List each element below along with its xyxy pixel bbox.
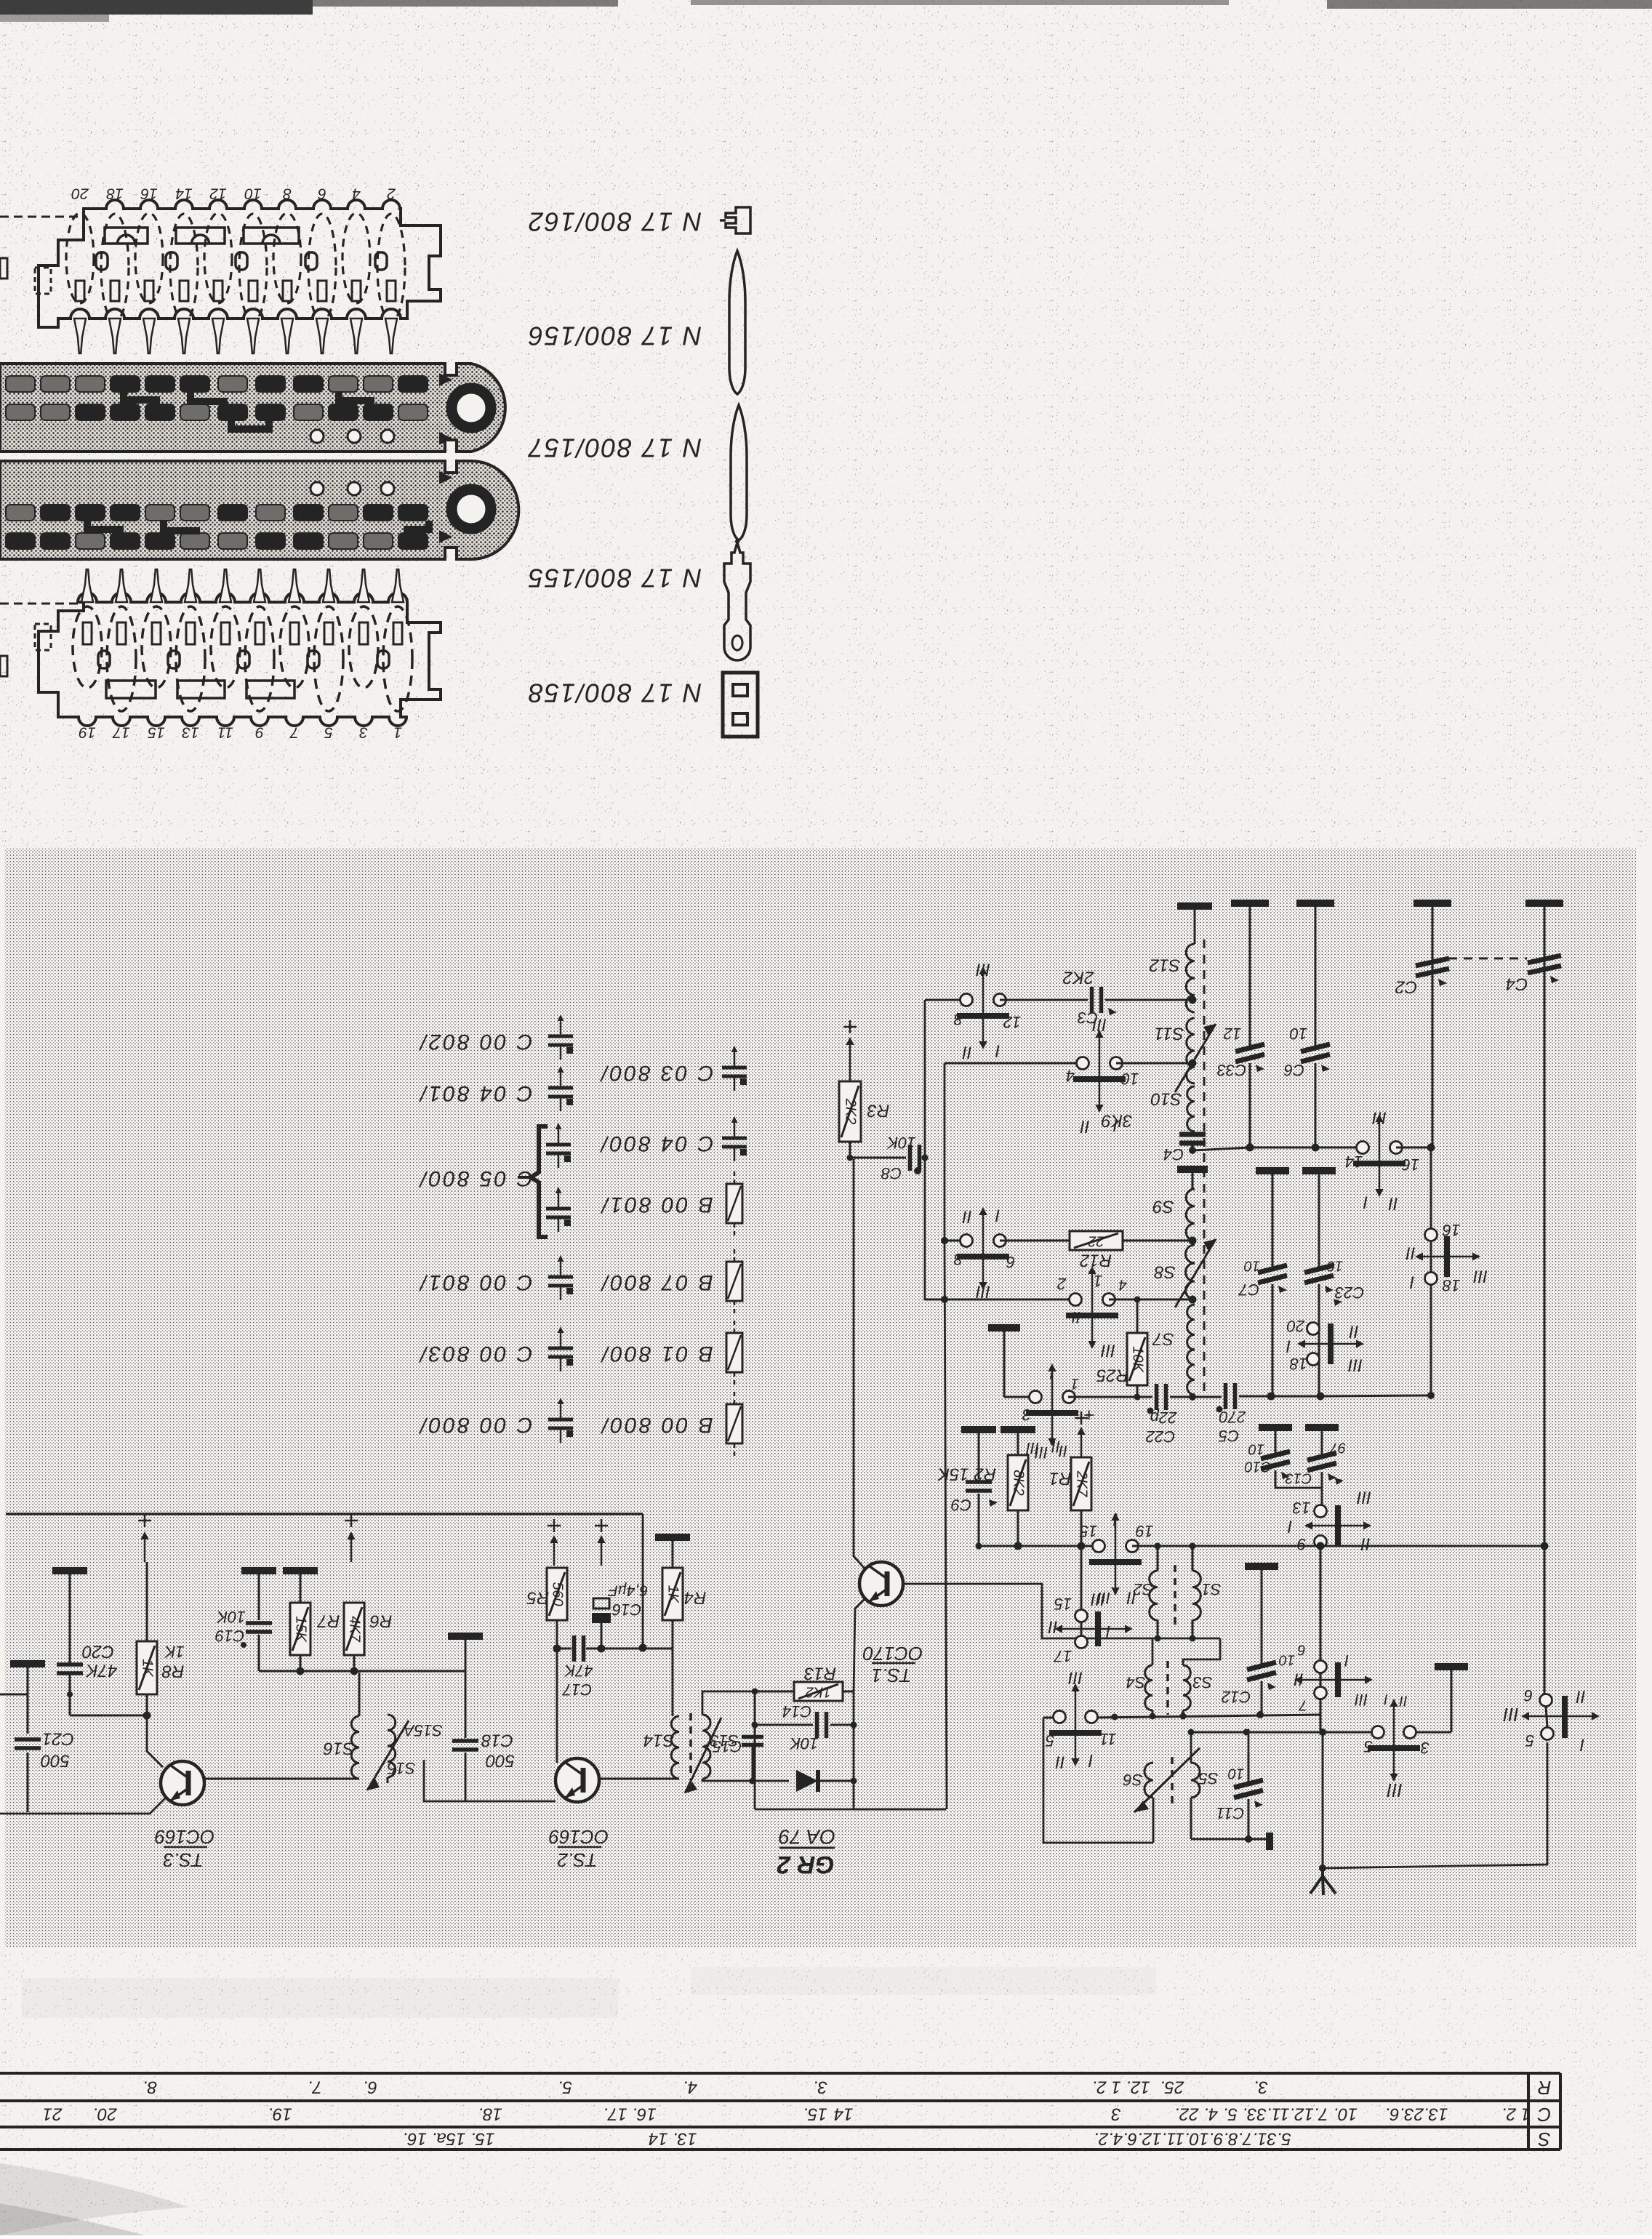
svg-text:C16: C16 <box>612 1601 641 1619</box>
coil S10 <box>1187 1086 1195 1131</box>
svg-text:15.: 15. <box>803 2104 827 2124</box>
svg-text:S8: S8 <box>1154 1262 1176 1282</box>
wire right rect side <box>1248 1729 1250 1753</box>
wire S13 bottom to diode <box>702 1779 789 1781</box>
svg-text:18.: 18. <box>478 2104 502 2124</box>
strip2 index arrows <box>439 373 452 386</box>
symbol contact fork N17800/162 <box>726 207 750 233</box>
capacitor C12 branch <box>1245 1563 1278 1570</box>
wire C10 C13 link <box>1275 1486 1322 1488</box>
svg-text:15: 15 <box>148 724 165 740</box>
svg-text:II: II <box>1055 1753 1065 1772</box>
resistor R13 <box>755 1691 794 1693</box>
list capacitor symbol C 04 800/ <box>734 1123 736 1137</box>
strip2 copper traces <box>124 392 156 409</box>
svg-text:II: II <box>1406 1243 1416 1263</box>
coil S13 adjustable <box>702 1715 710 1779</box>
coil S3 <box>1183 1665 1190 1710</box>
scan streak above table <box>22 1978 618 2018</box>
svg-text:15K: 15K <box>293 1616 309 1643</box>
wire bus corner to C16 junction <box>642 1514 644 1648</box>
svg-text:III: III <box>1068 1668 1083 1688</box>
capacitor C23 branch <box>1302 1167 1336 1174</box>
svg-text:C22: C22 <box>1146 1427 1175 1446</box>
svg-text:C15: C15 <box>712 1737 742 1755</box>
capacitor C8 <box>850 1157 906 1159</box>
list resistor symbol B 01 800/ <box>734 1321 736 1333</box>
symbol long contact pin N17800/156 <box>729 251 745 394</box>
svg-text:C12: C12 <box>1222 1688 1251 1706</box>
svg-text:R13: R13 <box>803 1664 836 1683</box>
resistor R7 <box>283 1567 318 1574</box>
svg-text:13: 13 <box>182 724 199 740</box>
svg-text:C18: C18 <box>481 1731 513 1750</box>
capacitor C14 <box>755 1724 813 1726</box>
svg-text:10: 10 <box>1279 1652 1295 1668</box>
svg-text:11: 11 <box>217 724 233 740</box>
svg-text:TS.3: TS.3 <box>163 1849 203 1871</box>
list resistor symbol B 07 800/ <box>734 1249 736 1262</box>
svg-text:8: 8 <box>283 185 292 201</box>
svg-text:10: 10 <box>1289 1025 1307 1043</box>
wafer4 dashed rotor contacts <box>73 606 102 688</box>
wafer4 contact rivets <box>98 651 110 668</box>
svg-text:II: II <box>1294 1670 1304 1689</box>
svg-text:11: 11 <box>1100 1730 1117 1748</box>
resistor R2 <box>1001 1426 1035 1433</box>
svg-text:22p: 22p <box>1150 1409 1178 1427</box>
resistor R6 <box>344 1603 364 1655</box>
svg-text:8.: 8. <box>143 2078 157 2097</box>
capacitor C11 <box>1234 1780 1263 1787</box>
svg-text:TS.1: TS.1 <box>872 1665 912 1686</box>
svg-text:8: 8 <box>953 1250 963 1268</box>
svg-text:C4: C4 <box>1506 974 1528 994</box>
svg-text:1K2: 1K2 <box>806 1684 832 1700</box>
S6 adjust arrow <box>1134 1748 1200 1812</box>
svg-text:47K: 47K <box>564 1662 593 1680</box>
transistor TS1 <box>859 1562 903 1606</box>
scan smudge bottom left <box>0 2163 189 2235</box>
wire TS2 base from C17 node <box>556 1649 558 1763</box>
svg-text:18: 18 <box>1289 1355 1307 1373</box>
capacitor C15 <box>742 1735 763 1739</box>
wire C20 to R8 <box>70 1715 147 1717</box>
svg-text:B 00 801/: B 00 801/ <box>600 1193 713 1217</box>
printed circuit strip N17800/155 body <box>0 461 518 559</box>
svg-text:17: 17 <box>1054 1647 1072 1665</box>
capacitor C13 branch <box>1305 1424 1339 1431</box>
svg-text:C2: C2 <box>1395 977 1418 997</box>
svg-text:8: 8 <box>953 1010 963 1028</box>
svg-text:C7: C7 <box>1238 1281 1259 1299</box>
svg-text:II: II <box>1399 1693 1408 1709</box>
svg-text:12: 12 <box>209 185 227 201</box>
top plate a <box>1231 900 1269 907</box>
svg-text:16: 16 <box>1442 1221 1460 1239</box>
wafer1 contact rivets <box>96 252 108 270</box>
svg-text:C 00 803/: C 00 803/ <box>418 1342 532 1366</box>
svg-text:12: 12 <box>1003 1013 1021 1031</box>
svg-text:OC169: OC169 <box>549 1826 609 1848</box>
switch S 20/18 <box>1307 1323 1320 1335</box>
wire C9 bottom bus <box>979 1545 1018 1547</box>
capacitor C6 branch <box>1315 906 1317 1046</box>
svg-text:14: 14 <box>175 185 192 201</box>
strip2 holes <box>310 430 324 443</box>
wafer1 terminal pins <box>74 319 86 353</box>
svg-text:S7: S7 <box>1152 1329 1174 1349</box>
trimmer C1 <box>1544 904 1546 1545</box>
list capacitor symbol C 00 800/ <box>560 1405 562 1419</box>
svg-text:7: 7 <box>289 724 299 740</box>
svg-text:R12: R12 <box>1080 1251 1112 1270</box>
resistor R25 <box>1136 1299 1139 1333</box>
symbol insulating plate N17800/158 <box>723 673 758 737</box>
svg-text:6.: 6. <box>363 2078 377 2097</box>
svg-text:3.: 3. <box>813 2078 827 2097</box>
svg-text:S11: S11 <box>1155 1024 1184 1044</box>
oscillator bus wire <box>1018 1545 1097 1547</box>
svg-text:N 17 800/162: N 17 800/162 <box>527 207 702 236</box>
svg-text:I: I <box>1344 1651 1349 1670</box>
resistor R4 <box>655 1534 690 1541</box>
IF bus wire <box>1250 1147 1362 1149</box>
wire switch feed left column <box>924 1000 926 1158</box>
svg-text:III: III <box>1092 1015 1107 1035</box>
wafer1 contact slots <box>76 281 84 301</box>
svg-text:5: 5 <box>324 724 333 740</box>
svg-text:3K9: 3K9 <box>1102 1111 1133 1131</box>
capacitor C22 <box>1068 1396 1152 1398</box>
svg-text:5.31.7.8.9.10.11.12.6.4.2.: 5.31.7.8.9.10.11.12.6.4.2. <box>1094 2129 1291 2149</box>
capacitor C5 <box>1192 1396 1222 1398</box>
svg-text:I: I <box>1088 1751 1093 1771</box>
svg-text:I: I <box>1287 1517 1292 1537</box>
wafer1 left margin fragment <box>0 258 7 279</box>
svg-text:S5: S5 <box>1198 1769 1219 1787</box>
top plate b <box>1296 900 1334 907</box>
svg-text:III: III <box>1372 1108 1387 1128</box>
svg-text:270: 270 <box>1219 1408 1246 1426</box>
svg-text:II: II <box>1059 1442 1067 1460</box>
svg-text:III: III <box>1348 1355 1363 1375</box>
svg-text:II: II <box>1360 1534 1371 1554</box>
svg-text:C14: C14 <box>782 1702 811 1721</box>
svg-text:S: S <box>1538 2128 1551 2150</box>
svg-text:14: 14 <box>1345 1153 1363 1171</box>
svg-text:1: 1 <box>393 724 402 740</box>
detector bus wire <box>1320 1545 1544 1547</box>
svg-text:15: 15 <box>1054 1595 1072 1613</box>
wire coupling row <box>1183 1638 1220 1665</box>
list capacitor symbol C 04 801/ <box>560 1073 562 1087</box>
svg-text:16: 16 <box>1401 1155 1419 1174</box>
svg-text:4K7: 4K7 <box>347 1616 363 1642</box>
resistor R8 <box>146 1562 148 1641</box>
top plate d <box>1525 900 1563 907</box>
svg-text:15. 15a. 16.: 15. 15a. 16. <box>403 2129 495 2149</box>
svg-text:GR 2: GR 2 <box>777 1851 834 1878</box>
svg-text:I: I <box>1106 1622 1110 1641</box>
svg-text:C9: C9 <box>951 1496 971 1514</box>
svg-text:C21: C21 <box>42 1729 74 1749</box>
list resistor symbol B 00 800/ <box>734 1392 736 1404</box>
svg-text:7.: 7. <box>308 2078 322 2097</box>
svg-text:C4: C4 <box>1163 1145 1184 1163</box>
svg-text:I: I <box>1363 1193 1368 1212</box>
svg-text:9: 9 <box>255 724 264 740</box>
svg-text:20.: 20. <box>92 2104 117 2124</box>
svg-text:S15: S15 <box>387 1759 416 1777</box>
coil S5 <box>1190 1762 1192 1764</box>
wire C4 to IF bus <box>1192 1147 1250 1150</box>
svg-text:R6: R6 <box>369 1611 392 1631</box>
svg-text:III: III <box>1387 1779 1403 1801</box>
capacitor C4 fixed <box>1179 1132 1206 1137</box>
wire TS3 emitter to bus <box>0 1798 166 1814</box>
table label column <box>1527 2073 1530 2150</box>
supply arrow R8 <box>138 1520 151 1522</box>
capacitor C10 branch <box>1259 1424 1292 1431</box>
wire TS2 collector to S14 <box>600 1778 679 1780</box>
svg-text:10: 10 <box>1248 1441 1264 1457</box>
svg-text:5: 5 <box>1363 1737 1373 1755</box>
svg-text:III: III <box>1097 1589 1110 1607</box>
svg-text:2K7: 2K7 <box>1074 1470 1090 1497</box>
wafer4 left dashed edge <box>0 603 81 605</box>
svg-text:4: 4 <box>1118 1277 1126 1293</box>
svg-text:S9: S9 <box>1152 1197 1174 1217</box>
svg-text:OC169: OC169 <box>155 1826 214 1848</box>
svg-text:III: III <box>976 960 990 980</box>
supply arrow R5 <box>548 1525 561 1527</box>
list resistor symbol B 00 801/ <box>734 1171 736 1184</box>
supply arrow R6 <box>345 1520 358 1522</box>
svg-text:B 01 800/: B 01 800/ <box>600 1342 713 1366</box>
svg-text:R: R <box>1538 2077 1552 2099</box>
transistor TS2 <box>556 1758 599 1802</box>
dashed link C2 C1 <box>1448 958 1527 960</box>
wire S15 to TS2 emitter <box>424 1760 556 1801</box>
svg-text:5.: 5. <box>558 2078 572 2097</box>
svg-text:I: I <box>1579 1735 1584 1755</box>
svg-text:R25: R25 <box>1096 1366 1128 1385</box>
svg-text:C20: C20 <box>81 1642 114 1662</box>
transformer core S4/S3 <box>1166 1661 1169 1715</box>
wire S7 bottom junction <box>1192 1395 1194 1397</box>
strip2 solder pads <box>6 376 35 392</box>
svg-text:R8: R8 <box>161 1662 184 1681</box>
coil S8 adjustable <box>1186 1245 1195 1299</box>
svg-text:3: 3 <box>1111 2104 1121 2124</box>
svg-text:6: 6 <box>1297 1642 1306 1658</box>
svg-text:2: 2 <box>387 185 396 201</box>
svg-text:III: III <box>1503 1704 1519 1726</box>
svg-text:C13: C13 <box>1286 1470 1312 1486</box>
feed plate right <box>1435 1663 1468 1670</box>
svg-text:13.23.6.: 13.23.6. <box>1385 2104 1448 2124</box>
svg-text:6: 6 <box>318 185 326 201</box>
wire TS3 collector to S16 <box>205 1778 359 1780</box>
svg-text:3: 3 <box>1022 1406 1031 1424</box>
strip2 mounting ring <box>452 388 491 428</box>
coil S14 <box>671 1716 679 1779</box>
svg-text:18: 18 <box>1442 1276 1460 1294</box>
svg-text:B 07 800/: B 07 800/ <box>600 1270 713 1294</box>
svg-text:C33: C33 <box>1216 1061 1246 1079</box>
switch S 5/11 <box>1054 1711 1066 1723</box>
switch S 5/3 <box>1372 1726 1384 1739</box>
svg-text:S1: S1 <box>1202 1580 1222 1598</box>
coil S11 adjustable <box>1187 1018 1195 1084</box>
diode GR2 <box>796 1770 818 1792</box>
svg-text:10K: 10K <box>1130 1346 1146 1373</box>
wire tuned circuit bottom right <box>1191 1838 1248 1841</box>
wafer4 terminal pins <box>81 569 93 602</box>
wire TS1 emitter to S-block <box>904 1584 1220 1638</box>
coil S9 <box>1186 1189 1195 1241</box>
svg-text:10: 10 <box>1327 1258 1343 1274</box>
scan smudge top edge <box>0 0 313 15</box>
svg-text:II: II <box>1080 1117 1090 1137</box>
svg-text:1K: 1K <box>140 1659 156 1678</box>
svg-text:I: I <box>1409 1273 1414 1292</box>
switch S 13/9 <box>1315 1505 1327 1518</box>
svg-text:C 00 802/: C 00 802/ <box>418 1030 532 1054</box>
svg-text:21: 21 <box>43 2104 63 2124</box>
wire GR2 bottom to TS1 branch <box>854 1809 946 1811</box>
capacitor C7 branch <box>1256 1167 1289 1174</box>
svg-text:12: 12 <box>1224 1025 1241 1043</box>
transistor TS3 <box>161 1761 204 1805</box>
svg-text:2: 2 <box>1057 1275 1067 1293</box>
switch S 6/5 right <box>1540 1694 1552 1707</box>
list brace C 05 800 <box>531 1126 548 1237</box>
strip3 mounting ring <box>452 489 491 529</box>
switch S 4/10 <box>945 1062 1083 1065</box>
wire R8 to TS3 base <box>147 1715 163 1767</box>
svg-text:5: 5 <box>1045 1731 1054 1750</box>
svg-text:I: I <box>995 1206 1000 1225</box>
svg-text:S3: S3 <box>1192 1673 1213 1691</box>
svg-text:III: III <box>1357 1488 1371 1507</box>
svg-text:I: I <box>995 1041 1000 1061</box>
wafer1 left dashed edge <box>0 216 79 218</box>
svg-text:S12: S12 <box>1150 956 1181 975</box>
coil S6 <box>1144 1763 1153 1798</box>
svg-text:N 17 800/157: N 17 800/157 <box>527 433 702 462</box>
coil S7 <box>1187 1305 1195 1395</box>
svg-text:14: 14 <box>834 2104 854 2124</box>
svg-text:N 17 800/156: N 17 800/156 <box>527 321 702 351</box>
coil S12 <box>1177 902 1212 910</box>
switch S 14/16 <box>1357 1142 1369 1154</box>
svg-text:19: 19 <box>79 724 96 740</box>
svg-text:II: II <box>962 1207 972 1227</box>
svg-text:19: 19 <box>1136 1522 1153 1540</box>
svg-text:97: 97 <box>1329 1440 1346 1456</box>
table frame lines <box>0 2072 1560 2075</box>
svg-text:C 05 800/: C 05 800/ <box>418 1166 532 1190</box>
svg-text:9: 9 <box>1297 1535 1306 1553</box>
svg-text:C23: C23 <box>1334 1283 1364 1302</box>
svg-text:3.: 3. <box>1254 2078 1268 2097</box>
svg-text:1K: 1K <box>665 1585 681 1604</box>
svg-text:R1: R1 <box>1049 1469 1072 1489</box>
capacitor C20 <box>52 1567 87 1574</box>
svg-text:I: I <box>1384 1691 1388 1707</box>
svg-text:500: 500 <box>40 1751 70 1771</box>
coil S4 <box>1145 1665 1152 1710</box>
svg-text:C17: C17 <box>562 1681 592 1699</box>
capacitor C18 <box>448 1633 483 1640</box>
svg-text:III: III <box>1035 1443 1048 1462</box>
svg-text:III: III <box>1101 1341 1115 1361</box>
svg-text:N 17 800/158: N 17 800/158 <box>527 678 702 708</box>
wire S13 top to R13 bus <box>702 1691 755 1715</box>
switch S 6/7 <box>1315 1661 1327 1673</box>
list capacitor symbol C 00 803/ <box>560 1334 562 1347</box>
svg-text:25. 12. 1 2.: 25. 12. 1 2. <box>1092 2078 1185 2097</box>
transformer core S6/S5 <box>1171 1757 1174 1803</box>
strip3 holes <box>310 482 324 495</box>
svg-text:C11: C11 <box>1216 1804 1245 1822</box>
svg-text:C 03 800/: C 03 800/ <box>599 1061 713 1085</box>
wire second column <box>945 1063 947 1809</box>
wire R13/C14 left link <box>754 1691 756 1781</box>
svg-text:R2 15K: R2 15K <box>937 1465 996 1484</box>
tuned circuit S6/S5 top rail <box>1190 1732 1192 1763</box>
coil S16 <box>358 1673 361 1716</box>
wire GR2 box right side <box>755 1691 854 1809</box>
strip3 index arrows <box>439 471 452 484</box>
svg-text:8K2: 8K2 <box>1011 1470 1027 1496</box>
wafer4 contact slots <box>83 622 92 644</box>
switch S 3/1 with feed plate <box>988 1324 1020 1331</box>
supply bus wire <box>6 1513 643 1515</box>
svg-text:16: 16 <box>140 185 158 201</box>
capacitor C21 <box>10 1660 45 1667</box>
svg-text:10K: 10K <box>216 1608 245 1626</box>
svg-text:7: 7 <box>1299 1697 1307 1713</box>
svg-text:C8: C8 <box>881 1164 902 1182</box>
strip3 solder pads <box>6 505 35 521</box>
svg-text:II: II <box>1048 1617 1058 1637</box>
list capacitor symbol C05 bottom <box>558 1194 560 1208</box>
svg-text:R5: R5 <box>526 1588 549 1608</box>
top plate c <box>1414 900 1451 907</box>
supply arrow C16 <box>595 1525 608 1527</box>
svg-text:+: + <box>1083 1404 1094 1426</box>
wire S2 S1 bottoms <box>1157 1620 1159 1638</box>
svg-text:10K: 10K <box>789 1734 818 1753</box>
svg-text:2K2: 2K2 <box>843 1098 859 1125</box>
svg-text:C 04 801/: C 04 801/ <box>418 1081 532 1105</box>
svg-text:S14: S14 <box>643 1731 675 1750</box>
switch S 2/4 <box>925 1299 1075 1301</box>
svg-text:10: 10 <box>1244 1258 1260 1274</box>
svg-text:OC170: OC170 <box>862 1643 923 1665</box>
svg-text:22: 22 <box>1088 1233 1104 1249</box>
capacitor C17 <box>572 1635 577 1662</box>
svg-text:4: 4 <box>1066 1067 1075 1085</box>
strip3 copper traces <box>87 521 120 534</box>
switch S 8/12 <box>925 999 966 1001</box>
svg-text:10: 10 <box>1120 1070 1139 1088</box>
wafer1 dashed rotor contacts <box>66 213 94 303</box>
svg-text:R3: R3 <box>867 1101 889 1121</box>
